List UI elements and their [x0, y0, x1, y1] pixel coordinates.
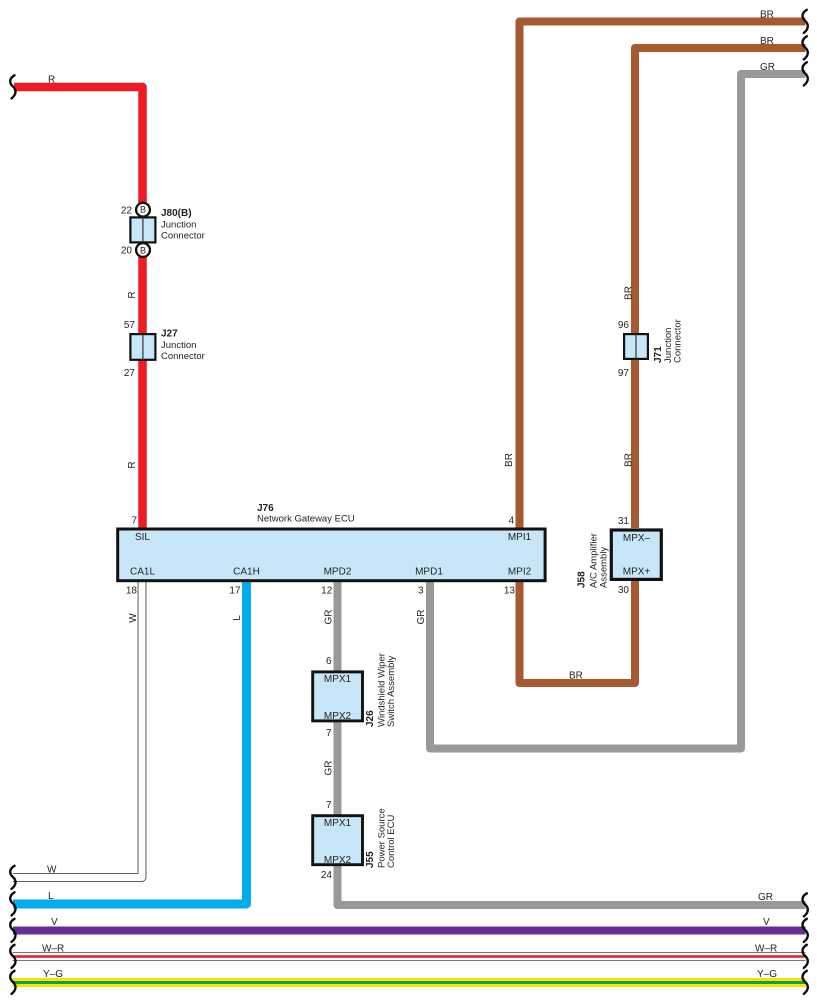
svg-text:R: R	[48, 75, 55, 86]
svg-text:7: 7	[326, 800, 332, 811]
svg-text:Assembly: Assembly	[599, 547, 610, 588]
svg-text:Junction: Junction	[161, 340, 196, 351]
A/C amplifier J58	[611, 530, 661, 579]
svg-text:BR: BR	[504, 453, 515, 467]
wire R horizontal+vertical (battery feed to SIL pin 7)	[14, 87, 143, 528]
break symbol (W left)	[10, 866, 15, 889]
svg-text:13: 13	[504, 585, 516, 596]
svg-text:MPD1: MPD1	[415, 567, 443, 578]
break symbol (GR right bottom)	[803, 893, 808, 916]
svg-text:GR: GR	[758, 892, 773, 903]
svg-text:GR: GR	[760, 62, 775, 73]
svg-text:J76: J76	[257, 503, 274, 514]
svg-text:96: 96	[618, 320, 630, 331]
wire Y-G (yellow-green bus)	[13, 978, 806, 987]
svg-text:L: L	[48, 891, 54, 902]
svg-text:Network Gateway ECU: Network Gateway ECU	[257, 514, 355, 525]
svg-text:L: L	[232, 615, 243, 621]
break symbol (BR right 1)	[803, 10, 808, 33]
svg-text:BR: BR	[624, 286, 635, 300]
power source control ECU J55	[313, 816, 363, 865]
break symbol (BR right 2)	[803, 36, 808, 59]
svg-text:MPI1: MPI1	[508, 532, 532, 543]
break symbol (W-R right)	[803, 945, 808, 968]
svg-text:30: 30	[618, 585, 630, 596]
svg-text:J27: J27	[161, 329, 178, 340]
svg-text:Y–G: Y–G	[757, 969, 777, 980]
svg-text:20: 20	[121, 246, 133, 257]
svg-text:7: 7	[326, 728, 332, 739]
label J58 A/C Amplifier Assembly (rotated)	[577, 533, 610, 588]
svg-text:V: V	[763, 917, 770, 928]
wire BR (MPX- pin 31 through J71 to right edge)	[635, 48, 806, 528]
svg-text:57: 57	[124, 320, 136, 331]
svg-text:MPD2: MPD2	[324, 567, 352, 578]
wire W-R (white-red bus)	[13, 952, 806, 961]
svg-text:J55: J55	[365, 851, 376, 868]
svg-text:CA1H: CA1H	[233, 567, 260, 578]
svg-text:GR: GR	[416, 610, 427, 625]
svg-text:6: 6	[326, 656, 332, 667]
wire GR (MPD1 pin 3 to top right edge)	[430, 74, 806, 749]
svg-text:Control ECU: Control ECU	[386, 815, 397, 868]
label J26 Windshield Wiper Switch Assembly (rotated)	[365, 653, 397, 727]
svg-text:MPX2: MPX2	[324, 855, 352, 866]
wire L (CA1H pin 17 to left edge)	[13, 581, 247, 904]
junction connector J27	[130, 334, 155, 360]
svg-text:31: 31	[618, 516, 630, 527]
svg-text:W: W	[47, 865, 57, 876]
svg-text:GR: GR	[324, 761, 335, 776]
break symbol (L left)	[10, 892, 15, 915]
label J27 Junction Connector	[161, 329, 205, 363]
break symbol (R left)	[10, 75, 15, 98]
wire V (violet bus)	[13, 927, 806, 935]
wire BR loop (MPI2 pin 13 to MPX+ pin 30)	[520, 581, 636, 683]
svg-text:BR: BR	[624, 453, 635, 467]
svg-text:Y–G: Y–G	[43, 969, 63, 980]
svg-text:BR: BR	[569, 671, 583, 682]
wire W (CA1L pin 18 to left edge)	[13, 580, 142, 878]
wiper switch J26	[313, 672, 363, 721]
svg-text:W–R: W–R	[755, 944, 777, 955]
svg-text:MPX1: MPX1	[324, 674, 352, 685]
wire GR (MPD2 pin 12 through J26/J55 to right edge)	[338, 581, 806, 905]
junction connector J80(B)	[130, 203, 155, 257]
break symbol (Y-G left)	[10, 971, 15, 994]
svg-text:97: 97	[618, 368, 630, 379]
break symbol (W-R left)	[10, 945, 15, 968]
svg-text:Connector: Connector	[673, 319, 684, 363]
break symbol (V left)	[10, 919, 15, 942]
svg-text:W–R: W–R	[42, 944, 64, 955]
svg-text:J26: J26	[365, 710, 376, 727]
svg-text:J58: J58	[577, 571, 588, 588]
svg-text:R: R	[127, 291, 138, 298]
svg-text:MPX1: MPX1	[324, 818, 352, 829]
label J80(B) Junction Connector	[161, 208, 205, 242]
svg-text:Connector: Connector	[161, 351, 205, 362]
svg-text:J80(B): J80(B)	[161, 208, 192, 219]
svg-text:MPX+: MPX+	[623, 567, 651, 578]
junction connector J71	[624, 334, 648, 359]
svg-text:GR: GR	[324, 610, 335, 625]
ECU J76 Network Gateway ECU	[118, 529, 545, 581]
svg-text:SIL: SIL	[135, 532, 150, 543]
svg-text:B: B	[140, 246, 146, 256]
svg-text:Switch Assembly: Switch Assembly	[386, 655, 397, 727]
svg-text:27: 27	[124, 368, 136, 379]
label J76 Network Gateway ECU	[257, 503, 355, 525]
svg-text:12: 12	[321, 585, 333, 596]
svg-text:BR: BR	[760, 36, 774, 47]
svg-text:3: 3	[418, 585, 424, 596]
svg-text:17: 17	[229, 585, 241, 596]
svg-text:Connector: Connector	[161, 231, 205, 242]
label J55 Power Source Control ECU (rotated)	[365, 808, 397, 868]
svg-text:CA1L: CA1L	[130, 567, 155, 578]
break symbol (V right)	[803, 919, 808, 942]
svg-text:MPX–: MPX–	[623, 533, 651, 544]
svg-text:24: 24	[321, 870, 333, 881]
label J71 Junction Connector (rotated)	[653, 319, 684, 363]
svg-text:4: 4	[509, 516, 515, 527]
svg-text:B: B	[140, 205, 146, 215]
break symbol (Y-G right)	[803, 971, 808, 994]
svg-text:W: W	[128, 613, 139, 623]
svg-text:R: R	[127, 461, 138, 468]
svg-text:Junction: Junction	[161, 220, 196, 231]
wire BR (MPI1 pin 4 to top right edge)	[520, 22, 806, 529]
svg-text:22: 22	[121, 205, 133, 216]
svg-text:7: 7	[131, 516, 137, 527]
svg-text:V: V	[51, 917, 58, 928]
svg-text:MPX2: MPX2	[324, 711, 352, 722]
svg-text:MPI2: MPI2	[508, 567, 532, 578]
svg-text:18: 18	[126, 585, 138, 596]
break symbol (GR right top)	[803, 62, 808, 85]
svg-text:BR: BR	[760, 10, 774, 21]
